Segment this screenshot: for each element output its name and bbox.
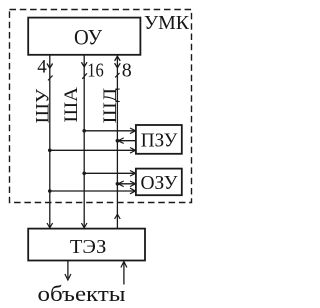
wire ШД to ОЗУ bidirectional xyxy=(116,181,136,187)
svg-text:ПЗУ: ПЗУ xyxy=(141,130,178,152)
wire ША to ПЗУ xyxy=(82,128,135,134)
wire ША to ОЗУ xyxy=(82,171,135,177)
slash on bus ШД xyxy=(115,73,119,78)
wire input up into ТЭЗ xyxy=(121,262,127,285)
arrowhead down on bus ША xyxy=(81,62,87,67)
wire ШУ to ОЗУ xyxy=(48,188,136,194)
svg-text:4: 4 xyxy=(37,57,47,78)
bus ШД vertical wire xyxy=(116,55,118,228)
arrowhead down bus ШУ into ТЭЗ xyxy=(47,223,53,228)
dashed boundary УМК xyxy=(10,10,192,203)
slash on bus ША xyxy=(82,73,87,79)
svg-text:ШД: ШД xyxy=(101,87,121,123)
svg-text:ОУ: ОУ xyxy=(74,25,102,50)
arrowhead down on bus ШУ xyxy=(47,64,53,69)
svg-text:ША: ША xyxy=(62,86,82,122)
block ОЗУ xyxy=(136,169,182,196)
wire ШУ to ПЗУ xyxy=(48,148,136,154)
arrowhead down bus ША into ТЭЗ xyxy=(81,223,87,228)
arrowhead up on bus ШД above ТЭЗ xyxy=(115,214,121,219)
arrowhead down on bus ШД xyxy=(115,63,121,68)
bus ША vertical wire xyxy=(83,55,85,228)
block ОУ xyxy=(28,18,140,55)
block ПЗУ xyxy=(136,125,182,154)
svg-text:ШУ: ШУ xyxy=(33,88,53,123)
svg-text:8: 8 xyxy=(122,59,132,81)
arrowhead up on bus ШД xyxy=(115,56,121,61)
slash on bus ШУ xyxy=(48,76,53,81)
block ТЭЗ xyxy=(28,229,145,261)
bus ШУ vertical wire xyxy=(49,55,51,228)
wire ТЭЗ output down xyxy=(65,261,71,280)
svg-text:16: 16 xyxy=(87,60,104,82)
svg-text:ОЗУ: ОЗУ xyxy=(141,172,179,194)
svg-text:объекты: объекты xyxy=(38,281,126,306)
wire ПЗУ to ШД xyxy=(116,138,136,144)
svg-text:ТЭЗ: ТЭЗ xyxy=(70,236,107,258)
svg-text:УМК: УМК xyxy=(144,12,190,34)
